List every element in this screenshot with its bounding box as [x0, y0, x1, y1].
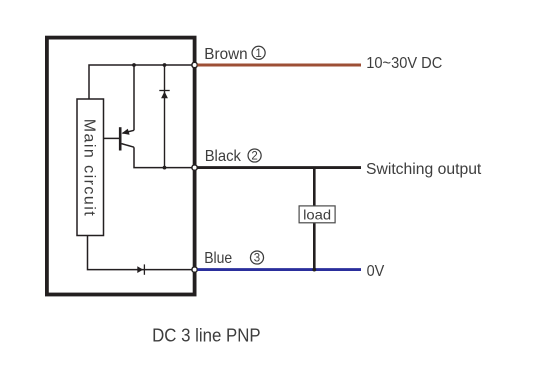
Q1 emitter diagonal — [123, 130, 135, 133]
junction dot diode/output — [163, 166, 167, 170]
pin number 3 — [250, 251, 263, 265]
diode D1 (vertical clamp diode) — [159, 65, 169, 168]
load branch wire — [313, 168, 316, 270]
wire: internal Vcc rail — [89, 65, 195, 99]
svg-text:1: 1 — [255, 48, 261, 60]
D1 cathode bar — [159, 90, 169, 92]
brown wire (supply) — [197, 64, 361, 67]
Q1 base bar — [119, 127, 122, 150]
junction dot Vcc/diode — [163, 63, 167, 67]
terminal pin 2 (black) — [192, 165, 197, 170]
load box — [299, 206, 335, 223]
svg-text:2: 2 — [251, 151, 257, 163]
wire: collector to output terminal — [134, 147, 195, 167]
sensor body outline — [47, 38, 195, 295]
D2 triangle — [137, 266, 143, 273]
pin number 1 — [252, 46, 265, 60]
wire: emitter branch vertical — [133, 65, 135, 130]
terminal pin 3 (blue) — [192, 267, 197, 272]
Q1 collector diagonal — [122, 144, 135, 148]
svg-text:Blue: Blue — [204, 250, 232, 267]
blue wire (0V) — [197, 268, 361, 271]
svg-text:0V: 0V — [367, 263, 385, 280]
main circuit block U1 — [77, 99, 104, 236]
svg-text:Black: Black — [205, 148, 242, 165]
svg-text:Switching output: Switching output — [366, 161, 482, 178]
diode D2 (reverse protection, on 0V rail) — [137, 264, 144, 274]
terminal pin 1 (brown) — [192, 62, 197, 67]
Q1 emitter arrowhead — [122, 129, 130, 135]
svg-text:load: load — [303, 206, 331, 222]
Q1 base wire — [104, 137, 120, 139]
D1 wire — [164, 65, 166, 168]
black wire (switching output) — [197, 166, 361, 169]
svg-text:3: 3 — [254, 253, 260, 265]
svg-text:10~30V DC: 10~30V DC — [366, 55, 442, 72]
wire: internal 0V rail — [88, 236, 195, 270]
transistor Q1 (PNP) — [104, 127, 135, 150]
junction dot load/0V — [312, 268, 316, 272]
svg-text:Main circuit: Main circuit — [81, 119, 98, 217]
pin number 2 — [248, 149, 261, 163]
D2 cathode bar — [143, 264, 145, 274]
D1 triangle — [161, 91, 168, 98]
junction dot Vcc/emitter — [132, 63, 136, 67]
svg-text:DC 3 line PNP: DC 3 line PNP — [152, 325, 261, 346]
svg-text:Brown: Brown — [204, 46, 247, 63]
